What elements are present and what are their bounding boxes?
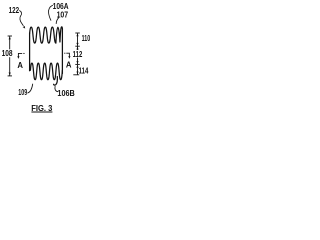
- svg-text:106B: 106B: [57, 89, 75, 98]
- svg-text:108: 108: [2, 49, 14, 58]
- svg-text:107: 107: [57, 10, 69, 19]
- svg-text:110: 110: [82, 34, 91, 43]
- svg-text:122: 122: [9, 6, 20, 15]
- svg-text:109: 109: [18, 88, 27, 97]
- svg-text:114: 114: [79, 66, 89, 75]
- svg-text:FIG. 3: FIG. 3: [31, 103, 52, 113]
- svg-text:A: A: [17, 61, 23, 70]
- svg-text:A: A: [66, 61, 72, 70]
- svg-text:112: 112: [73, 50, 83, 59]
